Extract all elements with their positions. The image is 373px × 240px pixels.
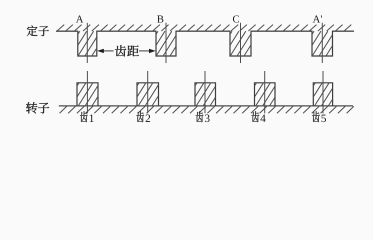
label 齿5 below rotor tooth 5 [312, 111, 326, 122]
wire stator surface line between teeth A and B [97, 30, 156, 32]
centerline of stator tooth C [240, 23, 242, 63]
stator tooth C (hatched pole tooth) [230, 31, 251, 56]
wire rotor surface line [59, 105, 353, 107]
stator tooth A (hatched pole tooth) [78, 31, 97, 56]
rotor tooth 齿3 (hatched) [195, 83, 216, 106]
rotor tooth 齿1 (hatched) [77, 83, 98, 106]
wire stator surface line right of tooth A' [333, 30, 355, 32]
wire stator surface line left of tooth A [56, 30, 78, 32]
rotor tooth 齿2 (hatched) [137, 83, 159, 106]
rotor tooth 齿4 (hatched) [255, 83, 276, 106]
label 定子 (stator) [27, 26, 49, 37]
label B above stator tooth [157, 16, 163, 23]
label C above stator tooth [233, 15, 239, 22]
left arrowhead of tooth-pitch dimension [97, 49, 104, 53]
wire stator surface line between teeth B and C [176, 30, 230, 32]
centerline of rotor tooth 齿5 [322, 71, 324, 113]
stator body hatching above surface line [57, 25, 351, 31]
wire stator surface line between teeth C and A' [251, 30, 312, 32]
label 齿2 below rotor tooth 2 [136, 111, 150, 122]
rotor body hatching below surface line [60, 106, 354, 113]
centerline of stator tooth A [86, 23, 88, 63]
centerline of rotor tooth 齿2 [147, 71, 149, 113]
stator tooth B (hatched pole tooth) [156, 31, 176, 56]
centerline of rotor tooth 齿1 [86, 71, 88, 113]
centerline of rotor tooth 齿4 [264, 71, 266, 113]
label 齿4 below rotor tooth 4 [251, 111, 265, 122]
centerline of stator tooth B [165, 23, 167, 63]
label A above stator tooth [76, 16, 83, 23]
label 转子 (rotor) [26, 102, 49, 113]
centerline of stator tooth A' [321, 23, 323, 63]
label A' above stator tooth A' [313, 16, 322, 23]
centerline of rotor tooth 齿3 [204, 71, 206, 113]
stator tooth A' (hatched pole tooth) [312, 31, 333, 56]
rotor tooth 齿5 (hatched) [313, 83, 332, 106]
label 齿3 below rotor tooth 3 [196, 111, 210, 122]
label 齿1 below rotor tooth 1 [80, 111, 94, 122]
label 齿距 (tooth pitch) [115, 45, 139, 56]
dimension line 齿距 (tooth pitch) between teeth A and B [103, 50, 150, 52]
right arrowhead of tooth-pitch dimension [149, 49, 156, 53]
